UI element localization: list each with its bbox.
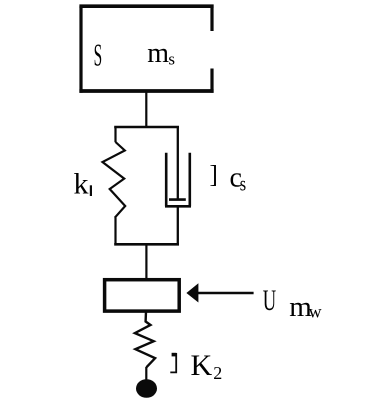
- svg-text:m: m: [147, 38, 169, 69]
- mass block m_w (wheel mass box): [105, 280, 180, 311]
- force arrow U (points left at m_w): [186, 283, 198, 302]
- wire: frame to m_w block: [145, 244, 147, 279]
- svg-text:K: K: [191, 349, 213, 382]
- mass block m_s (sprung mass box, broken right side): [79, 5, 213, 93]
- road contact point (filled dot): [136, 379, 157, 398]
- damper rod (lower): [177, 206, 179, 244]
- svg-text:S: S: [94, 39, 103, 73]
- spring K2: [135, 311, 155, 367]
- bracket for K2: [172, 353, 177, 357]
- suspension frame top bar: [114, 126, 179, 129]
- svg-text:s: s: [168, 50, 175, 69]
- svg-text:s: s: [240, 172, 246, 195]
- svg-text:w: w: [309, 302, 322, 322]
- wire: spring K2 to road contact: [145, 367, 147, 380]
- frame left upper drop: [114, 127, 116, 142]
- frame bottom bar: [114, 243, 179, 246]
- svg-text:2: 2: [213, 363, 222, 383]
- damper piston plate: [169, 198, 186, 201]
- svg-text:U: U: [263, 285, 276, 317]
- damper piston rod (upper): [177, 127, 179, 200]
- svg-text:]: ]: [210, 162, 218, 189]
- damper cylinder c_s: [165, 153, 191, 207]
- wire: m_s to suspension frame: [145, 91, 147, 127]
- svg-text:k: k: [74, 168, 89, 201]
- frame left lower drop: [114, 218, 116, 245]
- spring k1: [103, 142, 126, 218]
